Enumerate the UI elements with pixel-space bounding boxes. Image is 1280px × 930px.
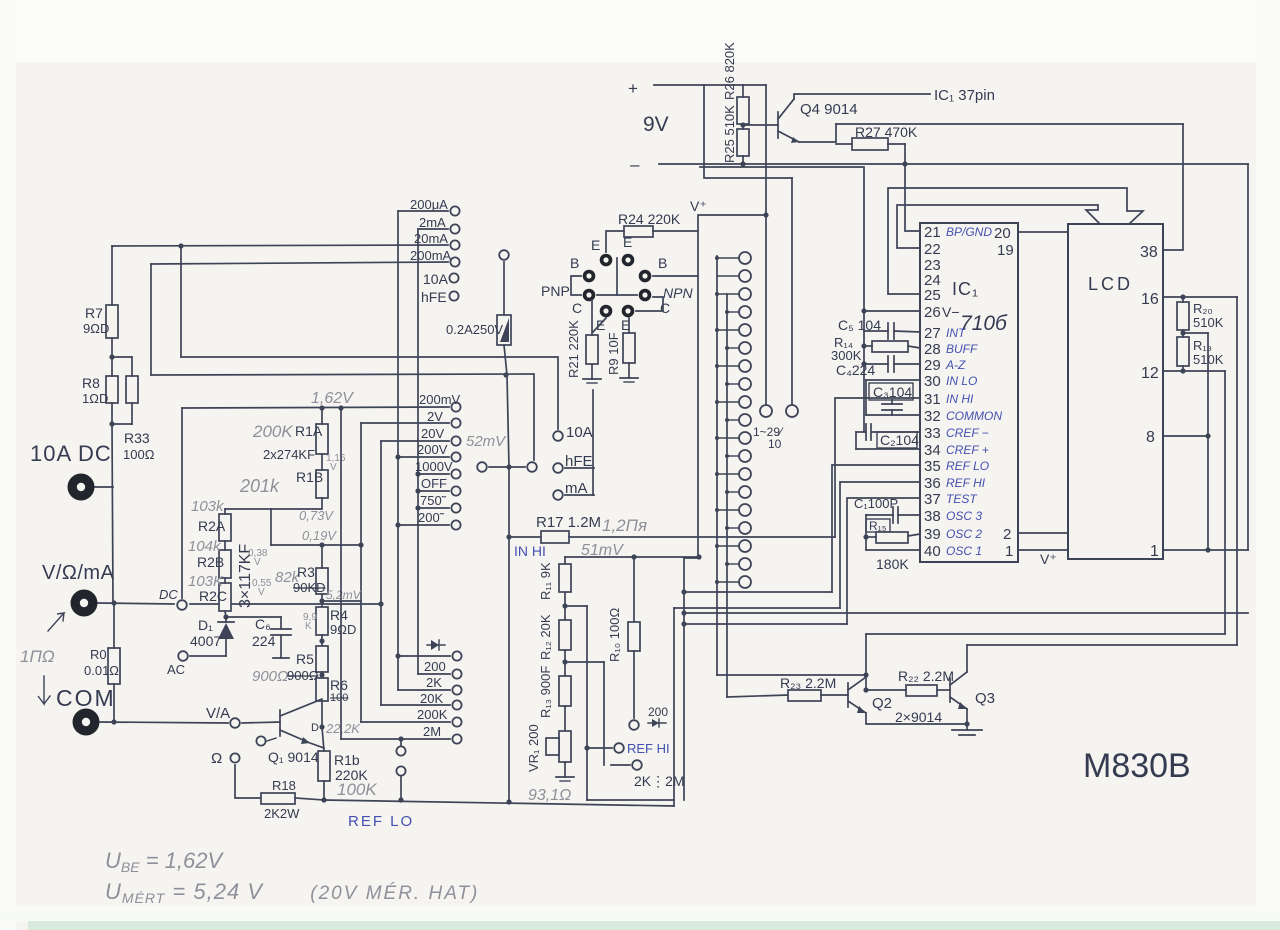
switch pair below 2M [400,739,402,745]
svg-text:52mV: 52mV [466,433,507,450]
wire R2C bottom node [225,611,281,617]
wire 2V to 200K row vertical [360,423,362,722]
svg-text:2K: 2K [426,675,442,690]
svg-text:IN HI: IN HI [514,543,546,559]
wire pin26 V- [864,310,920,312]
wire pin36 REF HI down [840,482,920,608]
svg-text:TEST: TEST [946,492,978,506]
svg-text:2V: 2V [427,409,443,424]
resistor R15 [866,519,890,532]
svg-text:9ΩD: 9ΩD [330,622,356,637]
transistor socket PNP E top [600,254,613,267]
svg-text:900Ω: 900Ω [287,668,319,683]
transistor socket PNP B [583,270,596,283]
svg-text:R6: R6 [330,677,348,693]
fuse top contact [499,250,509,260]
resistor R11 9K [559,564,571,592]
wire battery plus rail [654,84,766,86]
svg-text:OSC 2: OSC 2 [946,527,982,541]
transistor Q4 9014 [777,112,779,138]
svg-text:26: 26 [924,304,941,321]
column contact 17 [739,540,751,552]
svg-text:22,2K: 22,2K [325,721,361,736]
svg-text:38: 38 [924,508,941,525]
svg-text:R₁₂ 20K: R₁₂ 20K [538,614,553,660]
wire 0,19V line [271,544,361,546]
contact 200V [451,452,460,461]
contact 200 row [452,669,461,678]
svg-text:V/A: V/A [206,705,230,722]
column contact 7 [739,360,751,372]
resistor R27 [852,138,888,150]
wire R4 R5 node [321,635,323,646]
capacitor C3 104 [869,383,913,400]
svg-text:R25 510K: R25 510K [722,105,737,163]
svg-text:R₁₉: R₁₉ [1193,338,1212,353]
wire pin25 riser to arrow [888,188,1143,294]
wire 200mA vertical [150,264,152,375]
svg-text:V: V [258,587,265,598]
svg-text:9ΩD: 9ΩD [83,321,109,336]
svg-text:R7: R7 [85,305,103,321]
svg-text:200K: 200K [252,422,293,441]
svg-text:36: 36 [924,475,941,492]
contact OFF [451,486,460,495]
wire R6 bottom node [321,701,323,727]
wire V+ line [699,214,766,216]
wire plus branch down [704,85,792,178]
wire TEST bus (pin37) [684,623,847,625]
wire R8 R33 bottoms joined [112,403,132,424]
svg-text:INT: INT [946,326,967,340]
contact 200uA [450,206,459,215]
svg-text:2: 2 [1003,526,1011,543]
svg-text:R4: R4 [330,607,348,623]
column contact 16 [739,522,751,534]
wire DC selector line [190,603,381,605]
svg-text:104k: 104k [188,538,222,555]
transistor Q2 [847,683,849,707]
svg-text:100Ω: 100Ω [123,447,155,462]
svg-text:OFF: OFF [421,476,447,491]
resistor R8 [106,376,118,403]
svg-text:1: 1 [1005,543,1013,560]
fuse 0.2A250V [503,262,505,315]
diode symbol on row [427,644,445,646]
transistor socket NPN E top [622,254,635,267]
wire pair down [508,467,510,537]
svg-text:hFE: hFE [421,289,447,305]
svg-text:0,73V: 0,73V [299,508,334,523]
column contact 10 [739,414,751,426]
svg-text:300K: 300K [831,348,862,363]
resistor R19 510K [1177,337,1189,366]
svg-text:R₁₀ 100Ω: R₁₀ 100Ω [607,608,622,662]
wire Q2 collector [865,634,867,690]
column contact 8 [739,378,751,390]
svg-text:R1A: R1A [295,423,323,439]
ground below R21 [591,364,593,379]
svg-text:1: 1 [1150,543,1159,560]
svg-text:93,1Ω: 93,1Ω [528,787,571,804]
svg-text:C: C [660,300,670,316]
wire R24 left to E socket [606,231,624,252]
contact 10A rotary [449,273,458,282]
wire hFE mA link [592,390,594,495]
wire 2M vertical from 1,62V line [340,408,342,739]
svg-text:V−: V− [942,304,960,320]
svg-text:40: 40 [924,543,941,560]
LCD box [1068,224,1163,559]
svg-text:C₆: C₆ [255,616,271,632]
column contact 19 [739,576,751,588]
resistor R26 [737,97,749,124]
resistor R12 20K [559,620,571,650]
resistor R22 2.2M [906,685,937,696]
wire REF LO bottom bus [324,800,674,806]
terminal COM jack [73,709,100,736]
svg-text:+: + [628,79,638,98]
contact 2V [451,418,460,427]
wire 10A range line [181,357,558,429]
svg-text:710б: 710б [960,312,1008,335]
wire 10A jack stub [95,486,113,488]
contact 2K-2M [632,760,642,770]
svg-text:COM: COM [56,685,116,711]
svg-text:200V: 200V [417,442,448,457]
transistor socket NPN E bottom [622,305,635,318]
wire column left bus A [716,256,718,675]
svg-text:35: 35 [924,458,941,475]
svg-text:C₁100P: C₁100P [854,496,898,511]
svg-text:PNP: PNP [541,283,570,299]
wire mid rail vertical [683,558,685,800]
wire R24 right to V+ rail [653,230,698,232]
column contact 14 [739,486,751,498]
svg-text:R₂₀: R₂₀ [1193,301,1213,316]
wire R11 R12 node to REF HI [564,592,566,620]
contact AC [178,651,188,661]
svg-text:R2A: R2A [198,518,226,534]
contact 200K row [452,717,461,726]
svg-text:R2C: R2C [199,588,227,604]
resistor R2A [219,514,231,541]
wire 200uA vertical bus [397,211,399,690]
svg-text:0,19V: 0,19V [302,528,337,543]
svg-text:V/Ω/mA: V/Ω/mA [42,562,115,584]
resistor R25 [737,129,749,156]
contact 2mA [450,224,459,233]
contact 200mA [450,257,459,266]
wire 1~29 right column [791,178,793,404]
wire R7/R8/R33 node [112,356,132,358]
svg-text:COMMON: COMMON [946,409,1002,423]
contact 20mA [450,240,459,249]
wire column left bus B [726,294,728,697]
contact 200mV [451,402,460,411]
svg-text:4007: 4007 [190,633,221,649]
ground below R9 [628,363,630,378]
svg-text:9V: 9V [643,113,669,136]
resistor R23 2.2M [788,690,821,701]
svg-text:20K: 20K [420,691,443,706]
wire pin40 OSC1 [866,549,920,551]
wire REF LO bus (pin35) [684,591,832,593]
wire IC pin20 to LCD [1018,231,1068,233]
column contact 3 [739,288,751,300]
svg-text:1000V: 1000V [415,459,453,474]
column contact 5 [739,324,751,336]
capacitor C2 104 [877,432,917,448]
ground symbol [952,729,982,731]
resistor R21 220K [586,335,598,364]
wire down to LCD pin 38 [1163,124,1183,250]
svg-text:C: C [572,300,582,316]
svg-text:CREF +: CREF + [946,443,989,457]
svg-text:30: 30 [924,373,941,390]
annotation arrow up-right [48,613,64,631]
svg-text:D₁: D₁ [198,617,213,633]
resistor R4 [316,607,328,635]
svg-text:2K2W: 2K2W [264,806,300,821]
column contact 15 [739,504,751,516]
potentiometer VR1 200 [564,706,566,731]
svg-text:19: 19 [997,242,1014,259]
svg-text:R21 220K: R21 220K [566,320,581,378]
transistor Q1 9014 [279,710,281,736]
wire emitter node to LCD pin38 line [836,123,1183,125]
wire plus to 1~29 left column [765,85,767,404]
svg-text:R₁₅: R₁₅ [869,519,887,533]
wire Q4 emitter to R27 node [799,124,836,142]
svg-text:D: D [311,722,319,734]
svg-text:R1b: R1b [334,752,360,768]
svg-text:R33: R33 [124,430,150,446]
column contact 9 [739,396,751,408]
svg-text:28: 28 [924,341,941,358]
svg-text:Q₁ 9014: Q₁ 9014 [268,749,319,765]
node V+ junction [763,212,768,217]
contact 2M row [452,734,461,743]
contact V/A [230,718,240,728]
svg-text:REF LO: REF LO [946,459,989,473]
wire NPN B to rail [653,275,698,277]
svg-text:20: 20 [994,225,1011,242]
wire battery minus rail [659,163,1248,165]
svg-text:21: 21 [924,224,941,241]
bottom scan strip [28,921,1280,930]
wire LCD pin8 line [1163,435,1208,437]
wire R27 to minus rail and IC pin21 [905,144,920,231]
wire Q3 collector [966,645,968,672]
svg-text:1ΠΩ: 1ΠΩ [20,647,55,666]
svg-text:103k: 103k [191,498,225,515]
svg-text:–: – [630,155,640,174]
svg-text:R24 220K: R24 220K [618,211,681,227]
wire R20/R19 node to mid vertical [1183,332,1208,334]
wire ohm contact to R18 [235,765,261,798]
svg-text:100K: 100K [337,780,377,799]
svg-text:R18: R18 [272,778,296,793]
switch contact hFE [553,463,563,473]
svg-text:R0: R0 [90,647,107,662]
wire NPN C hook [636,297,663,311]
svg-text:8: 8 [1146,429,1155,446]
wire fuse bottom down [504,345,507,375]
svg-text:DC: DC [159,587,178,602]
svg-text:510K: 510K [1193,315,1224,330]
svg-text:Q3: Q3 [975,690,995,707]
svg-text:IC₁ 37pin: IC₁ 37pin [934,87,995,104]
contact 200V~ [451,520,460,529]
svg-text:M830B: M830B [1083,747,1191,785]
svg-text:224: 224 [252,633,276,649]
resistor R2C [219,583,231,611]
svg-text:Q2: Q2 [872,695,892,712]
svg-text:31: 31 [924,391,941,408]
contact hFE rotary [449,291,458,300]
svg-text:750˜: 750˜ [420,493,447,508]
svg-text:200: 200 [648,705,668,719]
svg-text:100: 100 [330,692,348,704]
svg-text:2×9014: 2×9014 [895,709,942,725]
wire COM to V/A contact [100,722,228,723]
contact below R10 [629,720,639,730]
switch contact 10A [553,431,563,441]
wire mid vertical (pins 16/8/1) [1207,333,1209,550]
column contact 2 [739,270,751,282]
svg-text:R17 1.2M: R17 1.2M [536,514,601,531]
svg-text:REF HI: REF HI [627,741,670,756]
wire PNP B hook [571,276,581,295]
svg-text:25: 25 [924,287,941,304]
svg-text:OSC 3: OSC 3 [946,509,982,523]
switch contact mA [553,490,563,500]
svg-text:V: V [254,557,261,568]
wire REF HI bus (pin36) [674,607,840,609]
wire LCD pin12 line [1163,370,1225,372]
node minus R27 junction [902,161,907,166]
svg-text:32: 32 [924,408,941,425]
calibration pair contact right [527,462,537,472]
resistor R0 0.01ohm [108,648,120,684]
wire top 20mA line [112,245,448,246]
wire socket center link [616,258,618,295]
svg-text:REF LO: REF LO [348,813,414,830]
svg-text:200μA: 200μA [410,197,448,212]
svg-text:39: 39 [924,526,941,543]
annotation arrow down [38,676,50,704]
svg-text:16: 16 [1141,291,1159,308]
svg-text:2mA: 2mA [419,215,446,230]
wire shunt rail down [112,424,113,603]
svg-text:37: 37 [924,491,941,508]
svg-text:CREF −: CREF − [946,426,989,440]
wire Q3 emitter to ground [966,709,968,730]
svg-text:E: E [591,237,600,253]
svg-text:V⁺: V⁺ [690,198,707,214]
wire IC pin2 to LCD [1018,532,1068,534]
svg-text:R2B: R2B [197,554,224,570]
wire PNP E to R21 [593,318,606,332]
diode D1 4007 [218,621,234,623]
svg-text:R₁₃ 900F: R₁₃ 900F [538,666,553,718]
svg-text:V⁺: V⁺ [1040,551,1057,567]
resistor R10 100 ohm [633,557,635,622]
wire bus A to Q2 collector [717,674,866,676]
svg-text:IN LO: IN LO [946,374,977,388]
svg-text:LCD: LCD [1088,274,1133,294]
svg-text:Ω: Ω [211,750,222,767]
contact 1~29 left [760,405,772,417]
svg-text:0.2A250V: 0.2A250V [446,322,503,337]
wire fuse range line [151,374,534,460]
wire pin12 vertical down [1224,371,1226,634]
svg-text:200: 200 [424,659,446,674]
svg-text:10A: 10A [566,424,593,441]
svg-text:C₂104: C₂104 [880,432,919,448]
resistor R16 [318,751,330,781]
wire jack to DC contact [98,603,174,604]
svg-text:R1B: R1B [296,469,323,485]
svg-text:OSC 1: OSC 1 [946,544,982,558]
svg-text:38: 38 [1140,244,1158,261]
svg-text:K: K [305,621,312,632]
svg-text:10A: 10A [423,271,449,287]
column contact 6 [739,342,751,354]
svg-text:B: B [658,255,667,271]
svg-text:R26 820K: R26 820K [722,42,737,100]
contact REF HI [614,743,624,753]
resistor R7 [106,305,118,338]
wire minus rail right edge down [1247,164,1249,550]
svg-text:200mA: 200mA [410,248,452,263]
svg-text:10A DC: 10A DC [30,441,112,466]
wire pin16 vertical down [1236,297,1238,645]
wire REF HI box bottom [587,799,674,801]
terminal V-ohm-mA jack [71,590,98,617]
transistor socket PNP E bottom [600,305,613,318]
contact DC [177,600,187,610]
column contact 12 [739,450,751,462]
wire V+ rail bottom corner [684,557,699,559]
wire Q4 collector to IC1 37pin [794,94,930,99]
svg-text:180K: 180K [876,556,909,572]
resistor R24 220K [624,226,653,237]
svg-text:R9 10F: R9 10F [606,332,621,375]
column contact 18 [739,558,751,570]
resistor R13 900F [559,676,571,706]
wire return line to Q2 [866,633,1225,635]
svg-text:10: 10 [768,437,782,451]
resistor R2B [219,550,231,578]
wire pin31 IN HI down to R17 line [835,398,920,537]
wire 20V to DC rail vertical [380,441,382,705]
svg-text:2x274KF: 2x274KF [263,447,315,462]
wire pin22 riser to arrow [897,205,1100,248]
wire left vertical to y357 [180,246,182,357]
svg-text:IN HI: IN HI [946,392,974,406]
svg-text:BP/GND: BP/GND [946,225,992,239]
svg-text:REF HI: REF HI [946,476,986,490]
capacitor C6 224 [280,617,282,629]
resistor R17 1.2M [541,531,569,543]
svg-text:20V: 20V [421,426,444,441]
svg-text:200˜: 200˜ [418,510,445,525]
svg-text:R₂₂ 2.2M: R₂₂ 2.2M [898,668,954,684]
column contact 1 [739,252,751,264]
wire pin36 box vertical [673,608,675,806]
